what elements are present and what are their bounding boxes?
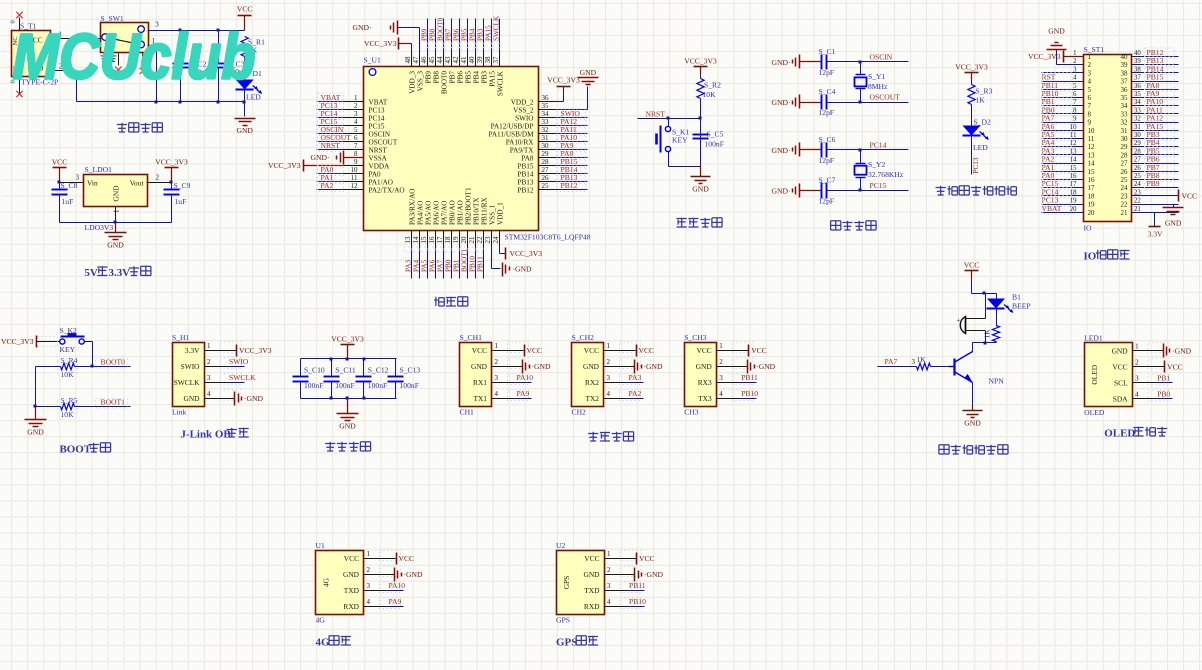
svg-text:PA5/AO: PA5/AO: [425, 201, 433, 226]
svg-text:11: 11: [351, 174, 358, 182]
svg-text:PA2: PA2: [321, 181, 334, 190]
svg-text:18: 18: [1088, 192, 1096, 200]
svg-text:RXD: RXD: [584, 602, 600, 611]
svg-text:VCC_3V3: VCC_3V3: [364, 39, 397, 48]
svg-text:PB11: PB11: [741, 373, 758, 382]
svg-text:VCC: VCC: [1112, 362, 1127, 371]
svg-text:23: 23: [1134, 189, 1141, 196]
svg-text:10K: 10K: [703, 90, 717, 99]
svg-text:10: 10: [1088, 127, 1096, 135]
svg-text:PB7: PB7: [449, 71, 457, 84]
svg-text:PA15: PA15: [489, 71, 497, 87]
svg-text:18: 18: [444, 236, 452, 244]
svg-text:SWCLK: SWCLK: [174, 378, 201, 387]
svg-text:NRST: NRST: [646, 110, 666, 119]
svg-text:29: 29: [1134, 140, 1141, 147]
svg-text:OLED: OLED: [1090, 364, 1099, 384]
svg-text:3: 3: [207, 374, 211, 382]
svg-text:S_CH3: S_CH3: [684, 333, 707, 342]
svg-text:34: 34: [542, 110, 550, 118]
svg-text:39: 39: [476, 56, 484, 64]
svg-text:·GND: ·GND: [513, 265, 532, 274]
svg-text:1: 1: [207, 342, 211, 350]
svg-text:3: 3: [495, 374, 499, 382]
svg-text:VDDA: VDDA: [369, 163, 391, 171]
svg-text:S_H1: S_H1: [172, 333, 190, 342]
svg-text:27: 27: [542, 166, 550, 174]
svg-text:38: 38: [484, 56, 492, 64]
svg-text:BOOT0: BOOT0: [441, 71, 449, 95]
svg-text:28: 28: [1134, 148, 1141, 155]
svg-text:100nF: 100nF: [368, 381, 387, 390]
svg-text:2: 2: [495, 358, 499, 366]
svg-text:8: 8: [354, 150, 358, 158]
svg-text:IO: IO: [1084, 224, 1093, 233]
svg-text:1uF: 1uF: [62, 197, 74, 206]
svg-text:·GND: ·GND: [1172, 346, 1191, 355]
svg-text:31: 31: [1121, 127, 1129, 135]
svg-text:Vin: Vin: [87, 179, 98, 188]
svg-text:35: 35: [1121, 94, 1129, 102]
svg-text:12pF: 12pF: [819, 68, 835, 77]
svg-text:TXD: TXD: [584, 586, 600, 595]
svg-text:37: 37: [1121, 78, 1129, 86]
svg-text:·GND: ·GND: [244, 394, 263, 403]
svg-text:·GND: ·GND: [404, 570, 423, 579]
svg-text:1: 1: [354, 94, 358, 102]
svg-text:PB11: PB11: [629, 581, 646, 590]
svg-text:14: 14: [412, 236, 420, 244]
svg-text:KEY: KEY: [60, 345, 76, 354]
svg-text:S_Y2: S_Y2: [868, 160, 886, 169]
svg-text:TX1: TX1: [473, 394, 487, 403]
svg-text:37: 37: [1134, 75, 1141, 82]
svg-text:43: 43: [444, 56, 452, 64]
svg-text:9: 9: [1088, 119, 1092, 127]
svg-text:BOOT: BOOT: [60, 444, 92, 456]
svg-text:GND: GND: [112, 185, 121, 202]
svg-text:Link: Link: [172, 407, 187, 416]
svg-text:S_C12: S_C12: [368, 366, 389, 375]
svg-text:PB9: PB9: [425, 71, 433, 84]
svg-text:GND·: GND·: [353, 23, 372, 32]
svg-text:40: 40: [1121, 53, 1129, 61]
svg-text:1: 1: [1135, 342, 1139, 350]
svg-text:STM32F103C8T6_LQFP48: STM32F103C8T6_LQFP48: [505, 233, 591, 242]
svg-text:VCC_3V3: VCC_3V3: [1028, 52, 1061, 61]
svg-text:TX2: TX2: [585, 394, 599, 403]
svg-text:OSCIN: OSCIN: [870, 52, 893, 61]
svg-text:4: 4: [719, 390, 723, 398]
svg-text:S_R5: S_R5: [61, 396, 78, 405]
svg-text:GND: GND: [1165, 219, 1182, 228]
svg-text:3: 3: [607, 582, 611, 590]
svg-text:4G: 4G: [322, 577, 331, 587]
svg-text:3: 3: [719, 374, 723, 382]
svg-text:SWIO: SWIO: [229, 357, 249, 366]
svg-text:100nF: 100nF: [705, 140, 724, 149]
svg-text:PA15: PA15: [485, 25, 493, 41]
svg-text:36: 36: [1121, 86, 1129, 94]
svg-text:PC15: PC15: [870, 181, 887, 190]
svg-text:VSS_2: VSS_2: [513, 107, 534, 115]
svg-text:PA4: PA4: [413, 259, 421, 272]
svg-text:VCC: VCC: [696, 346, 711, 355]
svg-text:VCC: VCC: [751, 346, 767, 355]
svg-text:GND: GND: [236, 126, 253, 135]
svg-text:PA2/TX/AO: PA2/TX/AO: [369, 187, 405, 195]
svg-text:26: 26: [1121, 168, 1129, 176]
svg-text:VCC: VCC: [584, 346, 599, 355]
svg-text:25: 25: [1121, 176, 1129, 184]
svg-text:28: 28: [542, 158, 550, 166]
svg-text:33: 33: [1121, 110, 1129, 118]
svg-text:PB10: PB10: [469, 256, 477, 272]
svg-text:U1: U1: [316, 541, 325, 550]
svg-text:PB1: PB1: [1157, 373, 1170, 382]
svg-text:1K: 1K: [976, 96, 986, 105]
svg-text:10K: 10K: [61, 370, 75, 379]
svg-text:S_R3: S_R3: [976, 87, 993, 96]
svg-text:S_C9: S_C9: [174, 181, 191, 190]
svg-text:3: 3: [367, 582, 371, 590]
svg-text:VCC: VCC: [1182, 191, 1198, 200]
svg-text:4: 4: [1135, 390, 1139, 398]
svg-text:2: 2: [607, 566, 611, 574]
svg-text:GND: GND: [343, 570, 360, 579]
svg-text:PB13: PB13: [518, 179, 534, 187]
svg-text:S_D2: S_D2: [974, 118, 992, 127]
svg-text:GND·: GND·: [772, 146, 791, 155]
svg-text:32.768KHz: 32.768KHz: [868, 170, 904, 179]
svg-text:IO: IO: [1084, 251, 1097, 263]
svg-text:NPN: NPN: [989, 377, 1005, 386]
svg-text:VSS_1: VSS_1: [489, 204, 497, 225]
svg-text:20: 20: [460, 236, 468, 244]
svg-text:21: 21: [468, 236, 476, 244]
svg-text:2: 2: [156, 174, 160, 182]
svg-text:4: 4: [607, 390, 611, 398]
svg-text:42: 42: [452, 56, 460, 64]
svg-text:7: 7: [354, 142, 358, 150]
svg-text:CH2: CH2: [572, 408, 587, 417]
svg-text:S_CH2: S_CH2: [572, 333, 595, 342]
svg-text:S_C6: S_C6: [819, 135, 836, 144]
svg-text:BOOT1: BOOT1: [461, 248, 469, 272]
svg-text:1: 1: [367, 550, 371, 558]
svg-text:4: 4: [367, 598, 371, 606]
svg-text:PA10: PA10: [389, 581, 406, 590]
svg-text:47: 47: [412, 56, 420, 64]
svg-text:LED1: LED1: [1084, 333, 1103, 342]
svg-text:12pF: 12pF: [819, 197, 835, 206]
svg-text:4G: 4G: [316, 616, 326, 625]
svg-text:36: 36: [542, 94, 550, 102]
svg-text:17: 17: [1088, 184, 1096, 192]
svg-text:SCL: SCL: [1114, 378, 1128, 387]
svg-text:NRST: NRST: [369, 147, 388, 155]
svg-text:TXD: TXD: [344, 586, 360, 595]
svg-text:19: 19: [1088, 201, 1096, 209]
svg-text:GND: GND: [696, 362, 713, 371]
svg-text:VCC_3V3: VCC_3V3: [684, 57, 717, 66]
svg-text:33: 33: [542, 118, 550, 126]
svg-text:GND: GND: [1112, 346, 1129, 355]
svg-text:VCC_3V3: VCC_3V3: [268, 161, 301, 170]
svg-text:27: 27: [1134, 157, 1141, 164]
svg-text:8MHz: 8MHz: [868, 82, 888, 91]
svg-text:VCC_3V3: VCC_3V3: [510, 249, 543, 258]
svg-text:VCC: VCC: [52, 158, 68, 167]
svg-text:21: 21: [1134, 206, 1141, 213]
svg-text:CH3: CH3: [684, 408, 699, 417]
svg-text:5: 5: [354, 126, 358, 134]
svg-text:SWIO: SWIO: [181, 362, 201, 371]
svg-text:PA1/AO: PA1/AO: [369, 179, 394, 187]
svg-text:MCUclub: MCUclub: [13, 21, 256, 93]
svg-text:12pF: 12pF: [819, 156, 835, 165]
svg-text:BEEP: BEEP: [1012, 302, 1031, 311]
svg-text:VSSA: VSSA: [369, 155, 388, 163]
svg-text:3: 3: [607, 374, 611, 382]
svg-text:GND: GND: [471, 362, 488, 371]
svg-text:RXD: RXD: [343, 602, 359, 611]
svg-text:30: 30: [1121, 135, 1129, 143]
svg-text:S_C5: S_C5: [707, 130, 724, 139]
svg-text:PC14: PC14: [870, 140, 887, 149]
svg-text:VCC_3V3: VCC_3V3: [1, 337, 34, 346]
svg-text:PA7: PA7: [437, 259, 445, 272]
svg-text:2: 2: [1088, 61, 1092, 69]
svg-text:PB15: PB15: [518, 163, 534, 171]
svg-text:·GND: ·GND: [756, 362, 775, 371]
svg-text:1uF: 1uF: [175, 197, 187, 206]
svg-text:·GND: ·GND: [644, 570, 663, 579]
svg-text:GND: GND: [580, 68, 597, 77]
svg-text:VCC_3V3: VCC_3V3: [155, 158, 188, 167]
svg-text:PA2: PA2: [629, 389, 642, 398]
svg-text:45: 45: [428, 56, 436, 64]
svg-text:PA6/AO: PA6/AO: [433, 201, 441, 226]
svg-text:PB1/AO: PB1/AO: [457, 200, 465, 225]
svg-text:GND: GND: [27, 428, 44, 437]
svg-text:3: 3: [1073, 66, 1077, 73]
svg-text:39: 39: [1134, 58, 1141, 65]
svg-text:PB4: PB4: [469, 28, 477, 41]
svg-text:PA9: PA9: [389, 597, 402, 606]
svg-text:PB6: PB6: [453, 28, 461, 41]
svg-text:5: 5: [1073, 83, 1077, 90]
svg-text:32: 32: [1121, 119, 1129, 127]
svg-text:2: 2: [607, 358, 611, 366]
svg-text:10: 10: [351, 166, 359, 174]
svg-text:3: 3: [1135, 374, 1139, 382]
svg-text:30: 30: [1134, 132, 1141, 139]
svg-text:PB4: PB4: [473, 71, 481, 84]
svg-text:PB0: PB0: [1157, 389, 1170, 398]
svg-text:Vout: Vout: [130, 179, 145, 188]
svg-text:PA12/USB/DP: PA12/USB/DP: [491, 123, 534, 131]
svg-text:VCC: VCC: [527, 346, 543, 355]
svg-text:PC14: PC14: [369, 115, 385, 123]
svg-text:PB7: PB7: [445, 28, 453, 41]
svg-text:GND: GND: [107, 241, 124, 250]
svg-text:22: 22: [1134, 198, 1141, 205]
svg-text:100nF: 100nF: [335, 381, 354, 390]
svg-text:PA3: PA3: [629, 373, 642, 382]
svg-text:PB5: PB5: [465, 71, 473, 84]
svg-text:VDD_2: VDD_2: [511, 99, 534, 107]
svg-text:31: 31: [542, 134, 550, 142]
svg-text:S_Y1: S_Y1: [868, 72, 886, 81]
svg-text:PA6: PA6: [429, 259, 437, 272]
svg-text:1: 1: [719, 342, 723, 350]
svg-text:GPS: GPS: [556, 616, 570, 625]
svg-text:PB9: PB9: [1147, 179, 1160, 188]
svg-text:SWCLK: SWCLK: [229, 373, 256, 382]
svg-text:13: 13: [404, 236, 412, 244]
svg-text:2: 2: [1135, 358, 1139, 366]
svg-text:PB5: PB5: [461, 28, 469, 41]
svg-text:19: 19: [452, 236, 460, 244]
svg-text:PB9: PB9: [421, 28, 429, 41]
svg-text:·GND: ·GND: [644, 362, 663, 371]
svg-text:PA10: PA10: [517, 373, 534, 382]
svg-text:KEY: KEY: [672, 136, 688, 145]
svg-text:13: 13: [1088, 151, 1096, 159]
svg-text:4: 4: [354, 118, 358, 126]
svg-text:2: 2: [367, 566, 371, 574]
svg-text:PB1: PB1: [453, 259, 461, 272]
svg-text:CH1: CH1: [460, 408, 475, 417]
svg-text:10K: 10K: [61, 410, 75, 419]
svg-text:PB11: PB11: [477, 256, 485, 272]
svg-text:1: 1: [607, 342, 611, 350]
svg-text:VCC: VCC: [639, 554, 655, 563]
svg-text:1: 1: [495, 342, 499, 350]
svg-text:4: 4: [1073, 75, 1077, 82]
svg-text:38: 38: [1121, 69, 1129, 77]
svg-text:PA3/RX/AO: PA3/RX/AO: [409, 189, 417, 225]
svg-text:GND·: GND·: [772, 187, 791, 196]
svg-text:32: 32: [542, 126, 550, 134]
svg-text:PA8: PA8: [521, 155, 534, 163]
svg-text:VCC_3V3: VCC_3V3: [331, 335, 364, 344]
svg-text:OLED: OLED: [1104, 428, 1135, 440]
svg-text:VCC: VCC: [399, 554, 415, 563]
svg-text:NRST: NRST: [321, 141, 341, 150]
svg-text:PA4/AO: PA4/AO: [417, 201, 425, 226]
svg-text:PB14: PB14: [518, 171, 534, 179]
svg-text:17: 17: [436, 236, 444, 244]
svg-text:GND: GND: [964, 419, 981, 428]
svg-text:VCC_3V3: VCC_3V3: [955, 63, 988, 72]
svg-text:1: 1: [607, 550, 611, 558]
svg-text:35: 35: [1134, 91, 1141, 98]
svg-text:34: 34: [1121, 102, 1129, 110]
svg-text:PA0: PA0: [369, 171, 382, 179]
svg-text:2: 2: [354, 102, 358, 110]
svg-text:GND·: GND·: [772, 98, 791, 107]
svg-text:22: 22: [476, 236, 484, 244]
svg-text:48: 48: [404, 56, 412, 64]
svg-text:16: 16: [1088, 176, 1096, 184]
svg-text:20: 20: [1088, 209, 1096, 217]
svg-text:22: 22: [1121, 201, 1129, 209]
svg-text:44: 44: [436, 56, 444, 64]
svg-text:1: 1: [1088, 53, 1092, 61]
svg-text:16: 16: [428, 236, 436, 244]
svg-text:PA9: PA9: [517, 389, 530, 398]
svg-text:GPS: GPS: [556, 637, 577, 649]
svg-text:PA7: PA7: [885, 357, 898, 366]
svg-text:15: 15: [420, 236, 428, 244]
svg-text:PB3: PB3: [477, 28, 485, 41]
svg-text:41: 41: [460, 56, 468, 64]
svg-text:PB2/BOOT1: PB2/BOOT1: [465, 187, 473, 225]
svg-text:37: 37: [492, 56, 500, 64]
svg-text:PB12: PB12: [518, 187, 534, 195]
svg-text:GND: GND: [339, 422, 356, 431]
svg-text:3: 3: [1088, 69, 1092, 77]
svg-text:PB10/TX: PB10/TX: [473, 197, 481, 225]
svg-text:3: 3: [912, 358, 916, 366]
svg-text:PB3: PB3: [481, 71, 489, 84]
svg-text:LED: LED: [973, 143, 988, 152]
svg-text:12: 12: [1088, 143, 1096, 151]
svg-text:S_C8: S_C8: [61, 181, 78, 190]
svg-text:S_C10: S_C10: [304, 366, 325, 375]
svg-text:VCC_3V3: VCC_3V3: [239, 346, 272, 355]
svg-text:26: 26: [1134, 165, 1141, 172]
svg-text:·GND: ·GND: [532, 362, 551, 371]
svg-text:PA5: PA5: [421, 259, 429, 272]
svg-text:SWCLK: SWCLK: [493, 15, 501, 41]
svg-text:GND·: GND·: [311, 153, 330, 162]
svg-text:PC13: PC13: [369, 107, 385, 115]
svg-text:PC13: PC13: [972, 157, 980, 173]
svg-text:VCC: VCC: [1167, 362, 1183, 371]
svg-text:7: 7: [1088, 102, 1092, 110]
svg-text:SWCLK: SWCLK: [497, 70, 505, 96]
svg-text:S_U1: S_U1: [364, 56, 382, 65]
svg-text:26: 26: [542, 174, 550, 182]
svg-text:PB0: PB0: [445, 259, 453, 272]
svg-text:2: 2: [207, 358, 211, 366]
svg-text:PB10: PB10: [629, 597, 646, 606]
svg-text:100nF: 100nF: [400, 381, 419, 390]
svg-text:VCC: VCC: [639, 346, 655, 355]
svg-text:S_R4: S_R4: [61, 356, 78, 365]
svg-text:9: 9: [354, 158, 358, 166]
svg-text:PA10/RX: PA10/RX: [506, 139, 535, 147]
svg-text:PB6: PB6: [457, 71, 465, 84]
svg-text:PA11/USB/DM: PA11/USB/DM: [488, 131, 534, 139]
svg-text:8: 8: [1088, 110, 1092, 118]
svg-text:24: 24: [1121, 184, 1129, 192]
svg-text:VCC: VCC: [344, 554, 359, 563]
svg-text:40: 40: [468, 56, 476, 64]
svg-text:S_C4: S_C4: [819, 87, 836, 96]
svg-text:VCC: VCC: [237, 5, 253, 14]
svg-text:RX1: RX1: [473, 378, 487, 387]
svg-text:32: 32: [1134, 116, 1141, 123]
svg-text:S_K2: S_K2: [60, 326, 78, 335]
svg-text:4: 4: [495, 390, 499, 398]
svg-text:34: 34: [1134, 99, 1141, 106]
svg-text:OSCIN: OSCIN: [369, 131, 391, 139]
svg-text:PB11/RX: PB11/RX: [481, 196, 489, 225]
